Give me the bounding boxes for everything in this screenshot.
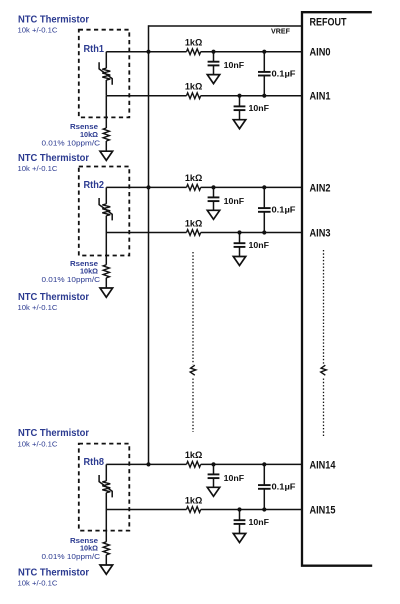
svg-text:1kΩ: 1kΩ (185, 38, 203, 48)
svg-text:0.01% 10ppm/C: 0.01% 10ppm/C (42, 552, 101, 561)
svg-text:Rth1: Rth1 (84, 44, 105, 55)
svg-text:10nF: 10nF (249, 241, 270, 250)
svg-text:1kΩ: 1kΩ (185, 173, 203, 183)
svg-text:1kΩ: 1kΩ (185, 82, 203, 92)
svg-text:NTC Thermistor: NTC Thermistor (18, 15, 89, 26)
svg-text:1kΩ: 1kΩ (185, 495, 203, 505)
svg-text:10k +/-0.1C: 10k +/-0.1C (18, 578, 58, 587)
svg-text:0.01% 10ppm/C: 0.01% 10ppm/C (42, 138, 101, 147)
svg-text:10k +/-0.1C: 10k +/-0.1C (18, 26, 58, 35)
svg-text:REFOUT: REFOUT (310, 17, 347, 29)
svg-text:AIN0: AIN0 (310, 47, 331, 59)
svg-text:10nF: 10nF (249, 104, 270, 113)
svg-text:Rth8: Rth8 (84, 457, 105, 468)
svg-text:0.1µF: 0.1µF (272, 482, 296, 492)
svg-text:10k +/-0.1C: 10k +/-0.1C (18, 439, 58, 448)
svg-text:AIN3: AIN3 (310, 227, 331, 239)
svg-text:10nF: 10nF (224, 474, 245, 483)
svg-text:AIN2: AIN2 (310, 182, 331, 194)
svg-text:Rth2: Rth2 (84, 180, 105, 191)
svg-text:10nF: 10nF (249, 518, 270, 527)
svg-text:VREF: VREF (271, 29, 291, 36)
svg-text:1kΩ: 1kΩ (185, 218, 203, 228)
svg-text:10nF: 10nF (224, 197, 245, 206)
svg-text:AIN15: AIN15 (310, 504, 336, 516)
svg-text:NTC Thermistor: NTC Thermistor (18, 428, 89, 439)
svg-text:10nF: 10nF (224, 61, 245, 70)
svg-text:AIN14: AIN14 (310, 459, 336, 471)
svg-text:1kΩ: 1kΩ (185, 450, 203, 460)
svg-text:10k +/-0.1C: 10k +/-0.1C (18, 164, 58, 173)
svg-text:NTC Thermistor: NTC Thermistor (18, 153, 89, 164)
svg-text:0.1µF: 0.1µF (272, 68, 296, 78)
svg-text:10k +/-0.1C: 10k +/-0.1C (18, 303, 58, 312)
svg-text:0.01% 10ppm/C: 0.01% 10ppm/C (42, 275, 101, 284)
svg-text:0.1µF: 0.1µF (272, 205, 296, 215)
svg-text:NTC Thermistor: NTC Thermistor (18, 292, 89, 303)
svg-text:AIN1: AIN1 (310, 91, 331, 103)
svg-text:NTC Thermistor: NTC Thermistor (18, 568, 89, 579)
